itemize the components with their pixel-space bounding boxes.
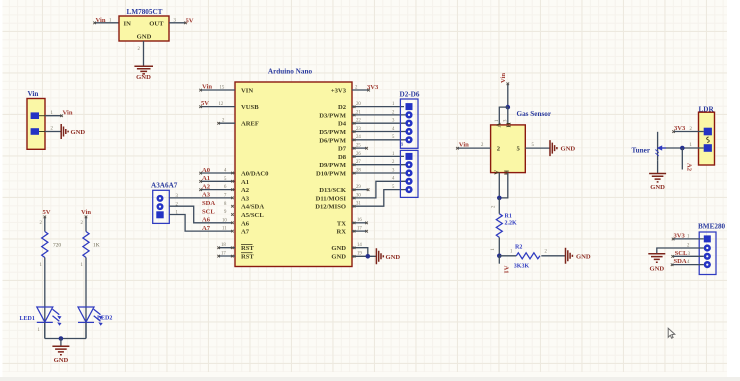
- svg-text:A2: A2: [241, 187, 250, 194]
- stub wire A1: [199, 180, 235, 183]
- LED2: [78, 307, 103, 326]
- wire 3V3 to J6 pin1: [672, 238, 704, 241]
- wire 5V down to junction: [507, 83, 510, 108]
- svg-text:GND: GND: [71, 129, 86, 136]
- svg-text:Gas Sensor: Gas Sensor: [517, 110, 552, 118]
- svg-text:R2: R2: [515, 245, 522, 251]
- svg-text:A: A: [496, 123, 503, 128]
- svg-text:SCL: SCL: [675, 250, 688, 257]
- wire U1 pin2 to ground: [143, 41, 145, 66]
- svg-text:A3A6A7: A3A6A7: [151, 182, 178, 190]
- wire junction to ground: [60, 339, 62, 346]
- svg-text:D13/SCK: D13/SCK: [319, 187, 347, 194]
- stub wire TX pin16: [352, 222, 368, 225]
- svg-text:SDA: SDA: [674, 258, 687, 265]
- svg-text:18: 18: [221, 243, 226, 248]
- pad pin2: [704, 128, 712, 136]
- stub wire RX pin17: [352, 230, 368, 233]
- svg-text:Vin: Vin: [28, 90, 39, 98]
- svg-text:A7: A7: [241, 229, 250, 236]
- svg-text:1K: 1K: [93, 243, 100, 249]
- pad pin1: [704, 235, 711, 242]
- svg-text:A1: A1: [202, 175, 210, 182]
- svg-text:D4: D4: [338, 121, 347, 128]
- svg-text:720: 720: [53, 243, 61, 249]
- svg-text:AREF: AREF: [241, 121, 259, 128]
- pad pin3: [405, 169, 412, 176]
- svg-text:GND: GND: [331, 245, 346, 252]
- svg-text:Vin: Vin: [459, 142, 469, 149]
- junction: [497, 254, 502, 259]
- pad pin4: [405, 178, 412, 185]
- svg-text:LED1: LED1: [20, 316, 35, 322]
- pad pin4: [405, 128, 412, 135]
- svg-text:OUT: OUT: [149, 21, 164, 28]
- stub wire D13/SCK: [352, 188, 369, 191]
- pad pin2: [157, 203, 164, 210]
- svg-text:A2: A2: [202, 183, 211, 190]
- resistor R3 720: [42, 232, 48, 258]
- svg-text:12: 12: [219, 102, 224, 107]
- pad pin2: [31, 128, 39, 135]
- wire R3 to LED1: [44, 258, 46, 339]
- svg-text:SDA: SDA: [202, 200, 215, 207]
- ground rail wire: [45, 338, 86, 340]
- svg-text:25: 25: [356, 144, 361, 149]
- svg-text:Vin: Vin: [202, 84, 212, 91]
- wire J1 pin2 to ground: [45, 131, 61, 133]
- stub wire RST pin18: [217, 247, 235, 250]
- svg-text:LM7805CT: LM7805CT: [127, 8, 163, 16]
- wire J2 pin2 to A6: [169, 206, 233, 223]
- connector J3 body: [400, 99, 418, 148]
- svg-text:GND: GND: [331, 254, 346, 261]
- svg-text:5V: 5V: [42, 209, 50, 216]
- svg-text:17: 17: [221, 251, 226, 256]
- svg-text:RX: RX: [336, 229, 346, 236]
- wire U3 pins 4 6 to junction: [499, 173, 508, 198]
- stub wire D7: [352, 147, 368, 150]
- svg-text:A1: A1: [241, 179, 249, 186]
- svg-text:D5/PWM: D5/PWM: [319, 129, 347, 136]
- J6 body: [699, 232, 716, 275]
- wire Vin to R4: [85, 216, 88, 232]
- connector J2 body: [153, 190, 170, 223]
- ground symbol right of U2: [376, 248, 383, 264]
- svg-text:20: 20: [356, 102, 361, 107]
- connector J1 body: [27, 99, 45, 150]
- wire VIN pin15: [199, 89, 235, 92]
- svg-text:21: 21: [356, 110, 361, 115]
- svg-text:29: 29: [356, 185, 361, 190]
- stub wire AREF pin2: [217, 122, 235, 125]
- stub wire RST pin17: [217, 255, 235, 258]
- wire LED2 to ground rail: [85, 322, 87, 338]
- pad pin2: [405, 111, 412, 118]
- svg-text:VIN: VIN: [241, 88, 253, 95]
- wire +3V3 pin2: [352, 89, 370, 92]
- svg-text:GND: GND: [650, 184, 665, 191]
- junction: [366, 254, 371, 259]
- svg-text:30: 30: [356, 193, 361, 198]
- resistor R1: [496, 214, 502, 238]
- svg-text:BME280: BME280: [698, 223, 726, 231]
- U3 body: [491, 125, 526, 173]
- wire LED1 to ground rail: [44, 322, 46, 338]
- svg-text:3V3: 3V3: [674, 232, 686, 239]
- mouse cursor: [668, 328, 675, 338]
- wire VUSB pin12: [199, 105, 235, 108]
- svg-text:LED2: LED2: [97, 315, 112, 321]
- U2 body: [235, 82, 352, 267]
- ground symbol below J6 pin2 wire: [648, 254, 665, 262]
- wire D6 to J3 pin5: [352, 139, 406, 142]
- wire D2 to J3 pin1: [352, 105, 404, 108]
- svg-text:Tuner: Tuner: [632, 147, 651, 155]
- pad pin3: [157, 195, 164, 202]
- svg-text:2.2K: 2.2K: [505, 220, 518, 226]
- svg-text:Vin: Vin: [500, 73, 507, 83]
- svg-text:D7: D7: [338, 146, 347, 153]
- svg-text:23: 23: [356, 127, 361, 132]
- stub wire A0: [199, 172, 235, 175]
- svg-text:Vin: Vin: [81, 209, 91, 216]
- pad pin5: [405, 136, 412, 143]
- svg-text:24: 24: [356, 135, 361, 140]
- pad pin2: [704, 244, 711, 251]
- pad pin1: [406, 153, 413, 160]
- wire 3V3 to J5 pin2: [672, 130, 703, 133]
- svg-text:TX: TX: [337, 220, 346, 227]
- junction: [497, 196, 502, 201]
- svg-text:3V3: 3V3: [674, 125, 686, 132]
- LED1: [37, 307, 62, 326]
- svg-text:GND: GND: [54, 357, 69, 364]
- wire R4 to LED2: [85, 258, 87, 339]
- svg-text:A7: A7: [202, 225, 211, 232]
- wire J2 pin1 to A7: [169, 215, 233, 232]
- wire J4 pin4 to D11/MOSI: [352, 181, 406, 199]
- svg-text:D6/PWM: D6/PWM: [319, 137, 347, 144]
- pad pin3: [405, 120, 412, 127]
- junction: [506, 105, 511, 110]
- svg-text:3K3K: 3K3K: [514, 264, 530, 270]
- svg-text:A4/SDA: A4/SDA: [241, 204, 264, 211]
- wire D9 to J4 pin2: [352, 164, 406, 167]
- wire junction down to A2: [681, 148, 683, 170]
- svg-text:D3/PWM: D3/PWM: [319, 112, 347, 119]
- svg-text:31: 31: [356, 202, 361, 207]
- wire D5 to J3 pin4: [352, 130, 406, 133]
- wire D10 to J4 pin3: [352, 172, 406, 175]
- svg-text:D2: D2: [338, 104, 347, 111]
- svg-text:D12/MISO: D12/MISO: [315, 204, 346, 211]
- svg-text:10: 10: [222, 218, 227, 223]
- svg-text:27: 27: [356, 160, 361, 165]
- wire R1 to junction: [498, 237, 500, 255]
- pad pin1: [704, 144, 712, 152]
- wire junction to R2: [499, 255, 516, 257]
- svg-text:Vin: Vin: [63, 109, 73, 116]
- LDR mark: [707, 137, 710, 143]
- ground symbol: [52, 346, 69, 354]
- svg-text:22: 22: [356, 119, 361, 124]
- svg-text:R1: R1: [505, 214, 512, 220]
- svg-text:GND: GND: [561, 146, 576, 153]
- wire J5 pin1 to tuner: [662, 147, 704, 149]
- wire U1 pin3 to 5V: [169, 22, 187, 25]
- wire U3 pin5 to ground: [525, 147, 549, 149]
- svg-text:H: H: [506, 122, 513, 128]
- wire J1 pin1 to Vin: [45, 115, 63, 118]
- svg-text:SCL: SCL: [202, 208, 215, 215]
- svg-text:Arduino Nano: Arduino Nano: [268, 67, 313, 75]
- wire junction down to A1: [498, 256, 500, 264]
- svg-text:A6: A6: [202, 217, 211, 224]
- svg-text:D8: D8: [338, 154, 347, 161]
- potentiometer Tuner: [655, 132, 666, 161]
- svg-text:A3: A3: [202, 192, 211, 199]
- regulator U1 LM7805CT body: [119, 16, 169, 41]
- ground symbol below tuner: [649, 174, 666, 182]
- pad pin1: [156, 211, 163, 218]
- svg-text:D11/MOSI: D11/MOSI: [316, 195, 347, 202]
- wire SCL to J6 pin3: [671, 255, 703, 258]
- wire D4 to J3 pin3: [352, 122, 406, 125]
- resistor R2: [516, 253, 540, 259]
- svg-text:GND: GND: [136, 74, 151, 81]
- wire D3 to J3 pin2: [352, 114, 406, 117]
- svg-text:A0/DAC0: A0/DAC0: [241, 171, 269, 178]
- svg-text:5V: 5V: [186, 17, 194, 24]
- wire J2 pin3 to A3: [169, 197, 233, 199]
- ground symbol at J1 pin2: [61, 124, 68, 139]
- svg-text:GND: GND: [576, 254, 591, 261]
- svg-text:D9/PWM: D9/PWM: [319, 162, 347, 169]
- svg-text:IN: IN: [124, 21, 132, 28]
- svg-text:D2-D6: D2-D6: [400, 91, 420, 99]
- pad pin2: [405, 161, 412, 168]
- svg-text:A2: A2: [685, 163, 692, 172]
- wire junction to U3 pins 1 and 3: [499, 107, 508, 125]
- wire Vin to U3 pin2: [456, 147, 491, 150]
- ground symbol below U1: [134, 66, 153, 74]
- svg-text:15: 15: [220, 85, 225, 90]
- wire SDA to J6 pin4: [671, 263, 704, 266]
- svg-text:H: H: [503, 170, 510, 176]
- svg-text:RST: RST: [241, 245, 254, 252]
- svg-text:A3: A3: [241, 195, 250, 202]
- wire Vin to U1 pin1: [93, 22, 119, 25]
- svg-text:VUSB: VUSB: [241, 104, 259, 111]
- svg-text:26: 26: [356, 152, 361, 157]
- svg-text:28: 28: [356, 168, 361, 173]
- pad pin4: [704, 261, 711, 268]
- wire J4 pin5 to D12/MISO: [352, 190, 406, 208]
- svg-text:17: 17: [357, 227, 362, 232]
- wire junction to R1: [498, 198, 500, 214]
- svg-text:Vin: Vin: [96, 17, 106, 24]
- wire 5V to R3: [44, 216, 47, 232]
- svg-text:GND: GND: [386, 254, 401, 261]
- pad pin1: [406, 103, 413, 110]
- pin crosses left A-rows: [231, 172, 234, 233]
- J5 body: [699, 112, 715, 165]
- svg-text:GND: GND: [137, 34, 152, 41]
- svg-text:19: 19: [357, 252, 362, 257]
- svg-text:A6: A6: [241, 220, 250, 227]
- svg-text:A5/SCL: A5/SCL: [241, 212, 264, 219]
- svg-text:A: A: [493, 170, 500, 175]
- svg-text:GND: GND: [649, 266, 664, 273]
- ground symbol right of R2: [566, 248, 573, 264]
- svg-text:14: 14: [357, 243, 362, 248]
- svg-text:16: 16: [357, 218, 362, 223]
- pad pin1: [31, 112, 39, 119]
- svg-text:A1: A1: [503, 266, 510, 274]
- resistor R4 1K: [83, 232, 89, 258]
- svg-text:+3V3: +3V3: [331, 88, 347, 95]
- svg-text:11: 11: [222, 227, 227, 232]
- wire J6 pin2 to ground: [657, 248, 704, 253]
- wire GND pins to ground: [352, 247, 376, 258]
- wire tuner to ground: [657, 161, 659, 173]
- svg-text:D10/PWM: D10/PWM: [316, 171, 347, 178]
- svg-text:5V: 5V: [201, 100, 209, 107]
- junction: [680, 146, 685, 151]
- svg-text:RST: RST: [241, 254, 254, 261]
- pad pin3: [704, 253, 711, 260]
- ground symbol right of U3: [550, 140, 557, 156]
- svg-text:3V3: 3V3: [367, 84, 379, 91]
- svg-text:A0: A0: [202, 167, 211, 174]
- stub wire A2: [199, 188, 235, 191]
- pad pin5: [405, 186, 412, 193]
- junction: [59, 336, 64, 341]
- wire R2 to ground: [541, 255, 565, 257]
- wire D8 to J4 pin1: [352, 155, 404, 158]
